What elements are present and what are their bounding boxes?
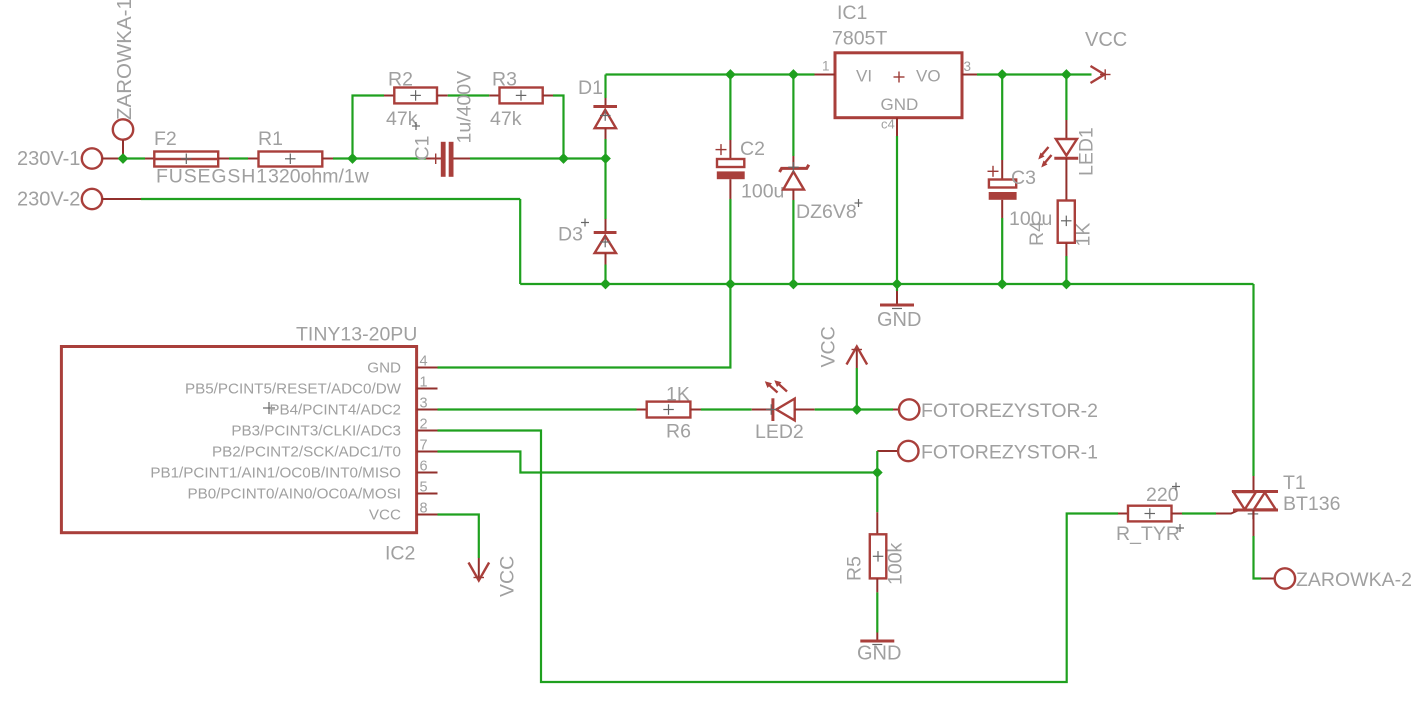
capacitor C2 pin bottom [729, 179, 731, 199]
resistor R6 [647, 402, 691, 418]
resistor R5 pin top [876, 512, 878, 534]
LED LED1 [1054, 139, 1078, 158]
IC2 pin 4 stub [417, 367, 438, 369]
resistor R_TYR [1128, 506, 1172, 522]
value 100u C2 [741, 181, 784, 203]
wire R_TYR to triac gate [1182, 512, 1216, 514]
wire C2 top [729, 75, 731, 141]
wire 230V-2 horizontal [141, 198, 520, 200]
node ZAROWKA-1 label [113, 0, 136, 120]
value DZ6V8 [796, 201, 857, 223]
label VCC right [1085, 29, 1127, 51]
svg-text:GND: GND [367, 360, 401, 377]
label D1 [578, 77, 603, 99]
pin number 8 [420, 501, 428, 517]
IC1 origin cross [894, 72, 905, 83]
op-amp IC2 box TINY13 [61, 347, 416, 533]
wire C2 bottom [729, 199, 731, 284]
svg-text:C2: C2 [740, 138, 765, 160]
label T1 [1283, 472, 1306, 494]
wire node to D3 [604, 159, 606, 220]
IC1 pin 3 stub [962, 74, 977, 76]
connector pad ZAROWKA-2 stub [1261, 578, 1275, 580]
svg-text:IC1: IC1 [837, 2, 867, 24]
svg-text:GND: GND [877, 309, 921, 331]
label C2 [740, 138, 765, 160]
wire DZ bottom [792, 200, 794, 284]
wire DZ top [792, 75, 794, 157]
svg-text:PB2/PCINT2/SCK/ADC1/T0: PB2/PCINT2/SCK/ADC1/T0 [212, 444, 401, 461]
resistor R1 origin cross [285, 154, 296, 165]
resistor R6 origin cross [663, 404, 674, 415]
label C3 [1011, 167, 1036, 189]
IC2 origin cross [263, 402, 275, 414]
svg-text:PB5/PCINT5/RESET/ADC0/DW: PB5/PCINT5/RESET/ADC0/DW [185, 381, 402, 398]
IC1 GND pin stub [896, 118, 898, 136]
capacitor C3 pin top [1001, 160, 1003, 180]
resistor R3 pin left [489, 95, 499, 97]
text origin cross 220 [1172, 483, 1180, 491]
resistor R_TYR pin left [1118, 513, 1128, 515]
svg-text:100k: 100k [885, 542, 907, 585]
wire 230V-2 down to bottom rail [519, 199, 521, 284]
resistor R4 origin cross [1061, 216, 1072, 227]
fuse F2 origin cross [181, 154, 192, 165]
wire pin2 net long [438, 431, 1119, 683]
svg-text:TINY13-20PU: TINY13-20PU [296, 324, 417, 346]
svg-text:3: 3 [964, 59, 972, 74]
wire R4 bottom [1065, 256, 1067, 284]
triac T1 origin cross [1248, 509, 1259, 520]
value 100k vertical [885, 542, 907, 585]
svg-text:BT136: BT136 [1283, 493, 1340, 515]
svg-text:230V-2: 230V-2 [17, 189, 80, 211]
wire pin7 net [438, 452, 878, 473]
label R3 [492, 69, 517, 91]
svg-text:ZAROWKA-2: ZAROWKA-2 [1296, 569, 1412, 591]
junction C2 bottom [725, 279, 736, 290]
resistor R3 pin right [543, 95, 553, 97]
value 47k R2 [386, 108, 418, 130]
svg-text:7805T: 7805T [832, 28, 887, 50]
value 47k R3 [490, 108, 522, 130]
triac T1 pin bottom [1253, 510, 1255, 536]
svg-text:230V-1: 230V-1 [17, 148, 80, 170]
label LED2 [755, 421, 804, 443]
text origin cross R_TYR [1176, 524, 1184, 532]
power arrow VCC mid up [847, 347, 868, 369]
resistor R1 pin right [322, 158, 333, 160]
capacitor C2 plus mark [716, 144, 727, 155]
LED2 pin left [752, 409, 773, 411]
label D3 [558, 224, 583, 246]
LED LED2 [773, 398, 795, 421]
wire F2 to R1 [229, 157, 248, 159]
junction DZ bottom [788, 279, 799, 290]
triac T1 pin top [1253, 476, 1255, 492]
junction LED1 top [1061, 69, 1072, 80]
diode D3 pin bottom [605, 253, 607, 265]
power arrow VCC down at IC2 [469, 558, 490, 581]
LED1 pin top [1065, 120, 1067, 139]
wire top rail [606, 73, 815, 75]
junction D3 bottom [600, 279, 611, 290]
resistor R2 pin left [384, 95, 394, 97]
label R_TYR [1116, 523, 1180, 545]
text origin cross DZ6V8 [855, 199, 863, 207]
value 320ohm/1w [268, 166, 370, 188]
diode D1 pin bottom [605, 128, 607, 139]
IC2 pin 5 stub [417, 493, 438, 495]
connector pad FOTOREZYSTOR-2 stub [893, 409, 899, 411]
resistor R5 [870, 534, 887, 578]
pin name PB5 pin1 [185, 381, 402, 398]
svg-text:100u: 100u [741, 181, 784, 203]
value FUSEGSH1 [156, 166, 268, 188]
value 220 [1146, 484, 1179, 506]
svg-text:1u/400V: 1u/400V [454, 71, 476, 144]
svg-text:1: 1 [822, 59, 830, 74]
pin number 7 [420, 438, 428, 454]
fuse F2 pin left [145, 158, 154, 160]
pin name PB1 pin6 [150, 465, 401, 482]
connector pad 230V-1 [82, 148, 102, 168]
pin number 5 [420, 480, 428, 496]
wire R5 to GND2 [876, 592, 878, 632]
value BT136 [1283, 493, 1340, 515]
label GND2 [857, 643, 901, 665]
wire top rail right [977, 73, 1092, 75]
node ZAROWKA-2 label [1296, 569, 1412, 591]
IC2 pin 2 stub [417, 430, 438, 432]
junction R4 bottom [1061, 279, 1072, 290]
label R4 vertical [1026, 221, 1048, 246]
pin name PB2 pin7 [212, 444, 401, 461]
capacitor C1 pin left [426, 158, 441, 160]
resistor R4 pin bottom [1065, 243, 1067, 256]
LED2 pin right [795, 409, 815, 411]
resistor R3 [500, 88, 543, 104]
svg-text:1K: 1K [666, 384, 690, 406]
node FOTOREZYSTOR-1 label [921, 442, 1098, 464]
junction C3 top [997, 69, 1008, 80]
wire C3 top [1001, 75, 1003, 161]
IC2 pin 3 stub [417, 409, 438, 411]
svg-text:D1: D1 [578, 77, 603, 99]
ground symbol GND1 [880, 291, 914, 309]
value 1K vertical [1073, 223, 1095, 247]
svg-text:D3: D3 [558, 224, 583, 246]
node 230V-2 label [17, 189, 80, 211]
pin number 3 [964, 59, 972, 74]
IC1 pin 1 stub [815, 74, 836, 76]
fuse F2 pin right [218, 158, 229, 160]
text origin cross D3 [581, 219, 589, 227]
pin number 3 [420, 396, 428, 412]
svg-text:VCC: VCC [497, 556, 519, 597]
junction C3 bottom [997, 279, 1008, 290]
pin number 2 [881, 117, 895, 132]
connector pad ZAROWKA-2 [1275, 568, 1295, 588]
zener diode DZ6V8 [780, 165, 809, 190]
triac T1 [1232, 492, 1278, 511]
svg-text:VCC: VCC [369, 507, 401, 524]
label VCC mid vertical [818, 326, 840, 367]
value 1K R6 [666, 384, 690, 406]
op-amp IC1 box [835, 53, 962, 118]
connector pad ZAROWKA-1 [113, 119, 133, 139]
capacitor C1 plates [441, 142, 454, 177]
label LED1 vertical [1076, 127, 1098, 176]
resistor R5 origin cross [873, 551, 884, 562]
IC2 pin 6 stub [417, 472, 438, 474]
resistor R_TYR pin right [1172, 513, 1183, 515]
svg-text:GND: GND [881, 95, 919, 114]
junction DZ top [788, 69, 799, 80]
label IC1 [837, 2, 867, 24]
label IC2 [385, 543, 415, 565]
zener DZ pin bottom [792, 190, 794, 200]
svg-text:320ohm/1w: 320ohm/1w [268, 166, 370, 188]
diode D3 [594, 233, 617, 254]
pin name PB0 pin5 [187, 486, 401, 503]
capacitor C2 pin top [729, 140, 731, 159]
junction R3 branch [558, 153, 569, 164]
wire 230V-2 stub [102, 198, 141, 200]
diode D1 origin cross [600, 110, 611, 121]
svg-text:LED2: LED2 [755, 421, 804, 443]
svg-text:R6: R6 [666, 421, 691, 443]
diode D1 pin top [605, 98, 607, 107]
connector pad FOTOREZYSTOR-1 stub [877, 450, 898, 452]
wire D1 to node [604, 139, 606, 159]
label R6 [666, 421, 691, 443]
wire R2 to R3 [448, 94, 490, 96]
wire R6 to LED2 [701, 408, 752, 410]
svg-text:47k: 47k [386, 108, 418, 130]
wire C3 bottom [1001, 218, 1003, 284]
pin name VI [856, 67, 872, 86]
pin name GND pin4 [367, 360, 401, 377]
svg-text:VCC: VCC [1085, 29, 1127, 51]
pin number 6 [420, 459, 428, 475]
svg-text:47k: 47k [490, 108, 522, 130]
svg-text:R2: R2 [388, 69, 413, 91]
svg-text:DZ6V8: DZ6V8 [796, 201, 857, 223]
IC2 pin 7 stub [417, 451, 438, 453]
pin name VCC pin8 [369, 507, 401, 524]
wire IC1 GND down [896, 136, 898, 284]
connector pad FOTOREZYSTOR-1 [898, 441, 918, 461]
junction GND rail [892, 279, 903, 290]
label F2 [154, 128, 177, 150]
value 100u C3 [1009, 208, 1052, 230]
pin number 2 [420, 417, 428, 433]
capacitor C3 pin bottom [1001, 200, 1003, 218]
LED2 origin cross [766, 404, 777, 415]
resistor R6 pin right [690, 409, 701, 411]
resistor R6 pin left [637, 409, 647, 411]
svg-text:C3: C3 [1011, 167, 1036, 189]
pin number 1 [822, 59, 830, 74]
svg-text:IC2: IC2 [385, 543, 415, 565]
resistor R4 [1058, 201, 1075, 243]
svg-text:PB3/PCINT3/CLKI/ADC3: PB3/PCINT3/CLKI/ADC3 [231, 423, 401, 440]
wire pin8 to VCC arrow [438, 515, 479, 559]
junction D1/D3 node [600, 153, 611, 164]
wire R3 branch down [553, 96, 564, 159]
pin name PB4 pin3 [269, 402, 401, 419]
svg-text:R4: R4 [1026, 221, 1048, 246]
wire pin3 to R6 [438, 408, 637, 410]
IC2 pin 1 stub [417, 388, 438, 390]
wire pin4 GND net [438, 284, 731, 368]
value 1u/400V vertical [454, 71, 476, 144]
svg-text:VI: VI [856, 67, 872, 86]
wire 230V-1 stub [102, 158, 121, 160]
resistor R2 pin right [437, 95, 448, 97]
node 230V-1 label [17, 148, 80, 170]
junction VCC arrow mid [851, 404, 862, 415]
label R1 [258, 128, 283, 150]
wire R2 branch up [353, 96, 385, 159]
svg-text:GND: GND [857, 643, 901, 665]
resistor R2 [394, 88, 437, 104]
svg-text:PB0/PCINT0/AIN0/OC0A/MOSI: PB0/PCINT0/AIN0/OC0A/MOSI [187, 486, 401, 503]
svg-text:R1: R1 [258, 128, 283, 150]
wire D1 top [604, 75, 606, 99]
diode D3 pin top [605, 219, 607, 233]
pin number 1 [420, 375, 428, 391]
wire VCC arrow mid down [856, 368, 858, 410]
value 7805T [832, 28, 887, 50]
svg-text:FOTOREZYSTOR-1: FOTOREZYSTOR-1 [921, 442, 1098, 464]
svg-text:C1: C1 [412, 136, 434, 161]
pin name GND IC1 [881, 95, 919, 114]
fuse F2 [154, 152, 218, 167]
resistor R2 origin cross [410, 90, 421, 101]
svg-text:ZAROWKA-1: ZAROWKA-1 [113, 0, 136, 120]
capacitor C3 [989, 180, 1017, 200]
diode D1 [593, 107, 617, 129]
wire ZAROWKA-1 stub [122, 140, 124, 159]
wire junction to R5 [876, 473, 878, 513]
wire R1 to C1 [333, 157, 426, 159]
power arrow VCC right [1091, 66, 1111, 83]
svg-text:220: 220 [1146, 484, 1179, 506]
junction 230V-1/ZAROWKA-1 [118, 153, 129, 164]
label GND1 [877, 309, 921, 331]
IC2 pin 8 stub [417, 514, 438, 516]
svg-text:1K: 1K [1073, 223, 1095, 247]
svg-text:F2: F2 [154, 128, 177, 150]
capacitor C1 origin cross [431, 154, 442, 165]
wire GND lead [896, 284, 898, 291]
connector pad 230V-2 [82, 189, 102, 209]
wire C1 to D node [470, 157, 606, 159]
triac T1 gate lead [1216, 510, 1239, 514]
svg-text:R5: R5 [844, 556, 866, 581]
wire T1 to ZAROWKA-2 [1254, 536, 1262, 579]
resistor R_TYR origin cross [1145, 508, 1156, 519]
resistor R1 [259, 152, 323, 167]
node FOTOREZYSTOR-2 label [921, 400, 1098, 422]
text origin cross 47k [412, 122, 420, 130]
junction R5 node [872, 467, 883, 478]
svg-text:PB1/PCINT1/AIN1/OC0B/INT0/MISO: PB1/PCINT1/AIN1/OC0B/INT0/MISO [150, 465, 401, 482]
wire 230V-1 to F2 [121, 157, 145, 159]
svg-text:R_TYR: R_TYR [1116, 523, 1180, 545]
svg-text:VO: VO [916, 67, 941, 86]
label TINY13-20PU [296, 324, 417, 346]
pin number 4 [420, 354, 428, 370]
wire rail corner down to triac [1252, 284, 1254, 476]
label VCC at IC2 arrow [497, 556, 519, 597]
resistor R5 pin bottom [876, 578, 878, 592]
svg-text:c4: c4 [881, 117, 895, 132]
junction C2 top [725, 69, 736, 80]
wire LED1 top [1065, 75, 1067, 121]
junction R2 branch [347, 153, 358, 164]
ground symbol GND2 [860, 633, 894, 645]
svg-text:VCC: VCC [818, 326, 840, 367]
svg-text:PB4/PCINT4/ADC2: PB4/PCINT4/ADC2 [269, 402, 401, 419]
LED1 to R4 lead [1065, 158, 1067, 200]
label C1 vertical [412, 136, 434, 161]
pin name PB3 pin2 [231, 423, 401, 440]
resistor R1 pin left [248, 158, 259, 160]
connector pad FOTOREZYSTOR-2 [899, 399, 919, 419]
svg-text:FOTOREZYSTOR-2: FOTOREZYSTOR-2 [921, 400, 1098, 422]
label R2 [388, 69, 413, 91]
capacitor C2 [717, 159, 745, 179]
label R5 vertical [844, 556, 866, 581]
wire D3 to bottom rail [604, 265, 606, 285]
LED1 emission arrows [1038, 147, 1051, 168]
svg-text:FUSEGSH1: FUSEGSH1 [156, 166, 268, 188]
zener DZ origin cross [788, 162, 799, 173]
capacitor C1 pin right [454, 158, 471, 160]
wire LED2 to FOTOREZYSTOR-2 [815, 408, 893, 410]
wire bottom rail [520, 283, 1253, 285]
svg-text:LED1: LED1 [1076, 127, 1098, 176]
diode D3 origin cross [600, 237, 611, 248]
wire FOTOREZYSTOR-1 to junction [876, 451, 878, 473]
pin name VO [916, 67, 941, 86]
zener DZ pin top [792, 156, 794, 168]
capacitor C3 plus mark [988, 166, 999, 177]
svg-text:R3: R3 [492, 69, 517, 91]
LED2 emission arrows [765, 380, 787, 392]
resistor R3 origin cross [516, 90, 527, 101]
svg-text:T1: T1 [1283, 472, 1306, 494]
